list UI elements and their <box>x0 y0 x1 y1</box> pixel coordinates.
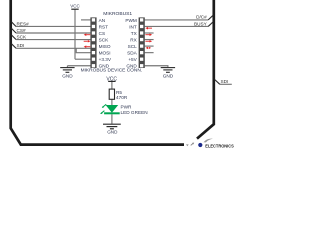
svg-text:MISO: MISO <box>99 44 111 49</box>
svg-text:PWM: PWM <box>125 18 137 23</box>
svg-text:SDA: SDA <box>127 51 138 56</box>
svg-text:+5V: +5V <box>128 57 137 62</box>
svg-text:RST: RST <box>99 24 109 29</box>
svg-text:RES#: RES# <box>17 21 30 26</box>
svg-text:ELECTRONICS: ELECTRONICS <box>205 143 234 148</box>
svg-text:D/C#: D/C# <box>196 15 207 20</box>
svg-text:MIKROBUS1: MIKROBUS1 <box>103 11 132 17</box>
svg-text:SCK: SCK <box>99 37 110 42</box>
svg-text:MIKROBUS DEVICE CONN.: MIKROBUS DEVICE CONN. <box>81 68 143 74</box>
svg-text:CS#: CS# <box>17 28 27 33</box>
svg-text:GND: GND <box>107 130 118 135</box>
svg-text:BUSY: BUSY <box>194 21 208 26</box>
svg-text:SDI: SDI <box>17 43 25 48</box>
svg-text:SCK: SCK <box>17 34 28 39</box>
svg-text:AN: AN <box>99 18 106 23</box>
svg-text:SDI: SDI <box>221 79 229 84</box>
svg-text:GND: GND <box>163 73 174 78</box>
svg-text:GND: GND <box>62 73 73 78</box>
svg-text:470R: 470R <box>116 95 128 100</box>
svg-text:MOSI: MOSI <box>99 51 111 56</box>
svg-text:+3.3V: +3.3V <box>99 57 112 62</box>
svg-text:SCL: SCL <box>128 44 138 49</box>
svg-text:INT: INT <box>129 24 137 29</box>
svg-text:TX: TX <box>131 31 138 36</box>
svg-text:CS: CS <box>99 31 106 36</box>
svg-text:LED GREEN: LED GREEN <box>121 110 148 115</box>
svg-text:RX: RX <box>130 37 137 42</box>
svg-text:VCC: VCC <box>70 3 80 8</box>
